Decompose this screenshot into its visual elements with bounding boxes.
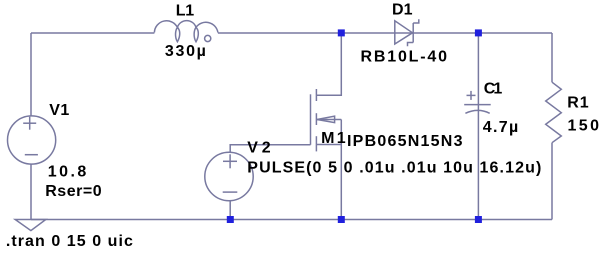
diode D1 — [395, 21, 413, 44]
transistor M1 — [310, 94, 312, 145]
node junction top C1 — [475, 29, 482, 36]
wire top rail L1 to right edge — [218, 32, 552, 34]
voltage source V2 — [205, 152, 253, 200]
svg-text:10.8: 10.8 — [48, 164, 87, 181]
svg-text:.tran 0 15 0 uic: .tran 0 15 0 uic — [6, 233, 133, 250]
node junction bottom C1 — [475, 216, 482, 223]
inductor L1 phase dot — [205, 35, 211, 41]
inductor L1 — [154, 21, 218, 33]
node junction top M1 drain — [338, 29, 345, 36]
svg-text:150: 150 — [568, 118, 600, 135]
wire M1 source bar link — [316, 144, 341, 146]
svg-text:Rser=0: Rser=0 — [45, 183, 102, 200]
svg-text:330µ: 330µ — [165, 43, 206, 60]
svg-text:IPB065N15N3: IPB065N15N3 — [347, 133, 463, 150]
wire right edge bottom — [551, 143, 553, 220]
voltage source V1 — [8, 116, 56, 164]
wire M1 drain — [316, 33, 341, 95]
wire left edge V1 top — [30, 33, 32, 116]
wire M1 source down — [340, 120, 342, 220]
node junction bottom V2 — [227, 216, 234, 223]
node junction bottom M1 — [338, 216, 345, 223]
svg-text:L1: L1 — [176, 2, 195, 19]
svg-text:PULSE(0 5 0 .01u .01u 10u 16.1: PULSE(0 5 0 .01u .01u 10u 16.12u) — [247, 160, 541, 177]
svg-text:D1: D1 — [392, 2, 413, 19]
wire right edge top — [551, 33, 553, 82]
wire top rail left of L1 — [31, 32, 154, 34]
resistor R1 — [546, 82, 562, 143]
ground — [15, 220, 46, 231]
svg-text:RB10L-40: RB10L-40 — [361, 49, 448, 66]
wire V2 bottom — [229, 201, 231, 220]
svg-text:4.7µ: 4.7µ — [483, 119, 519, 136]
wire V1 bottom to ground — [30, 164, 32, 219]
wire C1 branch — [477, 33, 479, 220]
svg-text:R1: R1 — [567, 94, 589, 111]
wire bottom rail — [31, 219, 552, 221]
svg-text:V2: V2 — [247, 139, 271, 156]
capacitor C1 — [464, 104, 491, 106]
svg-text:V1: V1 — [49, 102, 69, 119]
wire gate to V2 — [230, 145, 310, 153]
svg-text:C1: C1 — [484, 81, 503, 98]
svg-text:M1: M1 — [321, 130, 346, 147]
